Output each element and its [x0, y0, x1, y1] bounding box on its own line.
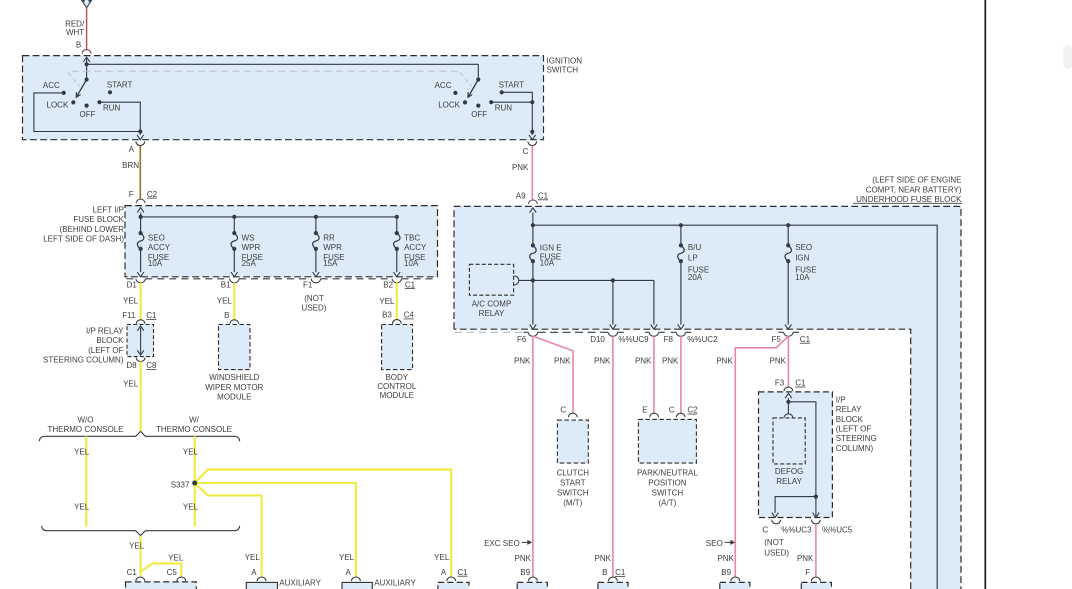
- node pole2 junction: [530, 100, 534, 104]
- connector bump B: [82, 49, 91, 53]
- bottom box seo: [720, 582, 750, 589]
- svg-text:C1: C1: [800, 335, 811, 344]
- svg-text:RR: RR: [323, 234, 335, 243]
- auxiliary box 1: [246, 582, 277, 589]
- svg-text:BLOCK: BLOCK: [836, 415, 864, 424]
- svg-text:EXC SEO: EXC SEO: [484, 539, 520, 548]
- svg-text:ACC: ACC: [43, 81, 60, 90]
- svg-text:BRN: BRN: [122, 161, 139, 170]
- exit arrow C: [531, 132, 533, 135]
- svg-text:B: B: [76, 41, 81, 50]
- svg-text:PNK: PNK: [635, 356, 652, 365]
- svg-text:ACC: ACC: [435, 81, 452, 90]
- svg-text:C: C: [560, 406, 566, 415]
- connector bump b c1: [609, 577, 618, 581]
- svg-text:LOCK: LOCK: [47, 101, 69, 110]
- svg-text:DEFOG: DEFOG: [775, 467, 803, 476]
- wire PNK F8: [680, 336, 682, 414]
- svg-text:YEL: YEL: [379, 297, 395, 306]
- fuse SEO ACCY FUSE 10A: [140, 217, 142, 233]
- ip relay block left circuit: [140, 328, 142, 354]
- svg-text:F11: F11: [122, 311, 136, 320]
- fuse SEO IGN FUSE 10A: [787, 225, 789, 245]
- exit arrow A: [139, 132, 141, 135]
- svg-text:STEERING: STEERING: [836, 434, 877, 443]
- svg-text:COLUMN): COLUMN): [836, 444, 874, 453]
- svg-text:B: B: [602, 568, 607, 577]
- svg-text:SWITCH: SWITCH: [547, 65, 579, 74]
- wire YEL merged: [139, 536, 141, 578]
- node left bus start: [139, 215, 143, 219]
- option split bracket: [39, 431, 239, 441]
- svg-text:F6: F6: [517, 335, 527, 344]
- wire relay bypass: [788, 402, 816, 517]
- svg-text:RELAY: RELAY: [776, 477, 802, 486]
- svg-text:USED): USED): [302, 304, 327, 313]
- svg-text:IGN E: IGN E: [540, 243, 562, 252]
- svg-text:THERMO CONSOLE: THERMO CONSOLE: [156, 425, 232, 434]
- connector bump C5 bottom: [177, 577, 186, 581]
- svg-text:B1: B1: [221, 280, 231, 289]
- svg-text:(NOT: (NOT: [304, 294, 324, 303]
- wire F8 down: [680, 261, 682, 324]
- wire YEL D8: [140, 361, 142, 431]
- fuse WS WPR FUSE 25A output arrow: [233, 249, 235, 272]
- svg-text:MODULE: MODULE: [217, 393, 251, 402]
- connector bump C1 bottom: [136, 577, 145, 581]
- svg-text:A: A: [441, 568, 447, 577]
- svg-text:C1: C1: [405, 280, 416, 289]
- svg-text:B9: B9: [520, 568, 530, 577]
- wire YEL w/o branch: [85, 436, 87, 526]
- svg-text:LP: LP: [688, 254, 698, 263]
- svg-text:C5: C5: [167, 568, 178, 577]
- svg-text:TBC: TBC: [404, 234, 420, 243]
- wire F5 down: [787, 261, 789, 324]
- svg-text:START: START: [499, 80, 525, 89]
- connector bump pnp C: [676, 413, 685, 417]
- svg-text:(M/T): (M/T): [563, 499, 582, 508]
- svg-text:YEL: YEL: [74, 447, 90, 456]
- svg-text:YEL: YEL: [217, 297, 233, 306]
- svg-text:C1: C1: [127, 568, 138, 577]
- left fuse block: [125, 206, 438, 277]
- svg-text:RUN: RUN: [103, 103, 121, 112]
- wire PNK F5 branch: [735, 336, 788, 577]
- svg-text:D10: D10: [590, 335, 605, 344]
- svg-text:C8: C8: [146, 361, 157, 370]
- svg-text:WIPER MOTOR: WIPER MOTOR: [205, 383, 263, 392]
- connector bump C: [528, 141, 537, 145]
- svg-text:(LEFT SIDE OF ENGINE: (LEFT SIDE OF ENGINE: [872, 176, 961, 185]
- off-page connector triangle: [79, 0, 94, 8]
- fuse RR WPR FUSE 15A output arrow: [315, 249, 317, 272]
- entry arrow B: [86, 59, 88, 65]
- wire BRN: [139, 146, 141, 199]
- svg-text:YEL: YEL: [183, 447, 199, 456]
- option merge bracket: [42, 526, 240, 536]
- entry arrow A9: [532, 213, 534, 226]
- svg-text:POSITION: POSITION: [648, 479, 686, 488]
- svg-text:SEO: SEO: [706, 539, 723, 548]
- svg-text:PNK: PNK: [594, 356, 611, 365]
- node pole1 out: [138, 129, 142, 133]
- node underhood bus A9: [531, 223, 535, 227]
- svg-text:20A: 20A: [688, 273, 703, 282]
- wire YEL S337 branch1: [195, 469, 452, 577]
- svg-text:IGN: IGN: [795, 254, 809, 263]
- svg-text:YEL: YEL: [183, 502, 199, 511]
- svg-text:RELAY: RELAY: [836, 405, 862, 414]
- svg-text:A: A: [251, 568, 257, 577]
- svg-text:CONTROL: CONTROL: [377, 382, 417, 391]
- svg-text:YEL: YEL: [339, 553, 355, 562]
- svg-text:A: A: [346, 568, 352, 577]
- fuse IGN E FUSE 10A: [532, 225, 534, 245]
- svg-text:YEL: YEL: [129, 542, 145, 551]
- page right border line: [984, 0, 986, 589]
- svg-text:(A/T): (A/T): [659, 499, 677, 508]
- ignition switch block: [23, 56, 544, 140]
- svg-text:LEFT SIDE OF DASH): LEFT SIDE OF DASH): [43, 234, 124, 243]
- wire YEL S337 branch2: [195, 483, 356, 577]
- svg-text:BLOCK: BLOCK: [96, 336, 124, 345]
- connector bump aux1: [257, 577, 266, 581]
- svg-text:SWITCH: SWITCH: [652, 489, 684, 498]
- svg-text:FUSE BLOCK: FUSE BLOCK: [73, 215, 124, 224]
- svg-text:25A: 25A: [242, 259, 257, 268]
- connector bump uc3: [772, 520, 781, 524]
- wire YEL B1: [233, 283, 235, 320]
- wire YEL S337 branch3: [195, 483, 262, 577]
- connector bump aux3: [447, 577, 456, 581]
- connector bump uc5: [812, 520, 821, 524]
- svg-text:W/: W/: [189, 416, 200, 425]
- fuse TBC ACCY FUSE 10A output arrow: [396, 249, 398, 272]
- svg-text:YEL: YEL: [74, 502, 90, 511]
- ignition switch pole 1: [85, 77, 89, 81]
- svg-text:B3: B3: [382, 311, 392, 320]
- bottom box d10: [598, 582, 628, 589]
- svg-text:YEL: YEL: [123, 379, 139, 388]
- svg-text:UNDERHOOD FUSE BLOCK: UNDERHOOD FUSE BLOCK: [856, 195, 962, 204]
- wire UC9 down: [653, 280, 655, 324]
- node bus B2: [395, 215, 399, 219]
- svg-text:RUN: RUN: [495, 103, 513, 112]
- wire RED/WHT: [86, 8, 88, 50]
- node ign bus: [85, 62, 89, 66]
- svg-text:AUXILIARY: AUXILIARY: [374, 578, 416, 587]
- svg-text:YEL: YEL: [434, 553, 450, 562]
- svg-text:BODY: BODY: [385, 373, 408, 382]
- svg-text:PNK: PNK: [716, 356, 733, 365]
- wire YEL D1: [140, 283, 142, 320]
- svg-text:F: F: [805, 568, 810, 577]
- wire ign bus: [87, 63, 479, 65]
- node bus seo: [786, 223, 790, 227]
- connector strip C1 left fuse block: [127, 278, 136, 280]
- wire PNK F6 branch clutch: [533, 336, 573, 414]
- svg-text:WINDSHIELD: WINDSHIELD: [209, 373, 259, 382]
- svg-text:(BEHIND LOWER: (BEHIND LOWER: [60, 225, 125, 234]
- svg-text:C1: C1: [615, 568, 626, 577]
- wire PNK D10: [612, 336, 614, 577]
- svg-text:YEL: YEL: [168, 554, 184, 563]
- svg-text:ACCY: ACCY: [404, 243, 427, 252]
- wire defog feed: [787, 402, 789, 414]
- svg-text:E: E: [642, 406, 647, 415]
- svg-text:%%UC5: %%UC5: [822, 526, 853, 535]
- windshield wiper motor module: [219, 325, 251, 370]
- wire YEL w/ branch: [194, 436, 196, 526]
- svg-text:WPR: WPR: [323, 243, 342, 252]
- connector bump pnp E: [650, 413, 659, 417]
- svg-text:W/O: W/O: [78, 416, 94, 425]
- svg-text:START: START: [560, 479, 586, 488]
- node F3: [786, 400, 790, 404]
- svg-text:C2: C2: [687, 406, 698, 415]
- connector bump aux2: [352, 577, 361, 581]
- wire relay to fuses: [519, 279, 654, 281]
- connector bump b9 2: [731, 577, 740, 581]
- wire YEL B2: [396, 283, 398, 320]
- ip relay block right: [759, 392, 833, 518]
- connector bump D8: [136, 358, 145, 362]
- svg-text:10A: 10A: [404, 259, 419, 268]
- svg-text:AUXILIARY: AUXILIARY: [279, 578, 321, 587]
- svg-text:PNK: PNK: [595, 554, 612, 563]
- svg-text:USED): USED): [764, 549, 789, 558]
- svg-text:LOCK: LOCK: [438, 101, 460, 110]
- svg-text:COMPT, NEAR BATTERY): COMPT, NEAR BATTERY): [866, 185, 962, 194]
- wire YEL C5 branch: [141, 563, 182, 577]
- svg-text:WPR: WPR: [242, 243, 261, 252]
- connector bump B3: [392, 320, 401, 324]
- svg-text:10A: 10A: [795, 273, 810, 282]
- wire PNK F5: [787, 336, 789, 387]
- scrollbar thumb: [1064, 45, 1072, 69]
- connector bump defog top: [784, 414, 793, 418]
- svg-text:SWITCH: SWITCH: [557, 489, 589, 498]
- wire PNK F6: [532, 336, 534, 577]
- svg-text:A: A: [129, 145, 135, 154]
- connector bump B wwm: [230, 320, 239, 324]
- svg-text:PNK: PNK: [554, 356, 571, 365]
- svg-text:10A: 10A: [148, 259, 163, 268]
- wire left bus: [141, 216, 397, 218]
- node bus F1: [314, 215, 318, 219]
- svg-text:C4: C4: [404, 311, 415, 320]
- ganged link dashed: [72, 70, 459, 72]
- wire defog out: [775, 497, 816, 513]
- svg-text:I/P RELAY: I/P RELAY: [86, 327, 124, 336]
- wire PNK defog: [815, 524, 817, 578]
- clutch start switch box: [557, 420, 588, 463]
- node d10 junction: [611, 278, 615, 282]
- svg-text:(LEFT OF: (LEFT OF: [836, 425, 872, 434]
- ip relay block left: [127, 325, 154, 357]
- svg-text:WHT: WHT: [66, 28, 84, 37]
- connector bump A: [136, 141, 145, 145]
- svg-text:CLUTCH: CLUTCH: [557, 468, 590, 477]
- svg-text:F8: F8: [664, 335, 674, 344]
- connector bump F3: [784, 387, 793, 391]
- svg-text:PNK: PNK: [717, 554, 734, 563]
- node ign e junction: [531, 278, 535, 282]
- svg-text:F: F: [129, 190, 134, 199]
- svg-text:PARK/NEUTRAL: PARK/NEUTRAL: [637, 468, 698, 477]
- defog relay box: [773, 418, 805, 464]
- svg-text:PNK: PNK: [514, 356, 531, 365]
- wire pole1 ACC: [34, 93, 140, 132]
- entry arrow F: [140, 213, 142, 217]
- svg-text:(NOT: (NOT: [764, 538, 784, 547]
- svg-text:PNK: PNK: [515, 554, 532, 563]
- svg-text:PNK: PNK: [512, 163, 529, 172]
- connector bump A9: [529, 200, 538, 204]
- fuse B/U LP FUSE 20A: [680, 225, 682, 245]
- node pole2 out: [530, 130, 534, 134]
- svg-text:C1: C1: [146, 311, 157, 320]
- svg-text:START: START: [107, 80, 133, 89]
- svg-text:THERMO CONSOLE: THERMO CONSOLE: [47, 425, 123, 434]
- svg-text:STEERING COLUMN): STEERING COLUMN): [43, 355, 124, 364]
- svg-text:OFF: OFF: [80, 110, 96, 119]
- svg-text:SEO: SEO: [795, 243, 812, 252]
- svg-text:S337: S337: [171, 481, 190, 490]
- park/neutral position switch box: [638, 419, 696, 463]
- svg-text:C1: C1: [457, 568, 468, 577]
- fuse TBC ACCY FUSE 10A: [396, 217, 398, 233]
- svg-text:10A: 10A: [540, 259, 555, 268]
- a/c comp relay box: [469, 264, 513, 295]
- svg-text:%%UC9: %%UC9: [618, 335, 649, 344]
- body control module: [382, 325, 413, 370]
- svg-text:D8: D8: [126, 361, 137, 370]
- svg-text:I/P: I/P: [836, 395, 846, 404]
- svg-text:YEL: YEL: [123, 297, 139, 306]
- svg-text:C: C: [669, 406, 675, 415]
- wire pole2 START: [502, 92, 533, 102]
- svg-text:C: C: [762, 526, 768, 535]
- svg-text:SEO: SEO: [148, 234, 165, 243]
- svg-text:RELAY: RELAY: [479, 309, 505, 318]
- svg-text:(LEFT OF: (LEFT OF: [88, 346, 124, 355]
- svg-text:B9: B9: [721, 568, 731, 577]
- auxiliary box 3: [438, 582, 469, 589]
- connector bump b9 1: [529, 577, 538, 581]
- svg-text:WS: WS: [242, 234, 255, 243]
- bottom box exc seo: [517, 582, 547, 589]
- svg-text:C2: C2: [147, 190, 158, 199]
- connector bump F11: [136, 320, 145, 324]
- ignition switch pole 2: [476, 77, 480, 81]
- wire D10 down: [612, 280, 614, 324]
- svg-text:LEFT I/P: LEFT I/P: [93, 206, 124, 215]
- svg-text:B: B: [224, 311, 229, 320]
- svg-text:ACCY: ACCY: [148, 243, 171, 252]
- svg-text:15A: 15A: [323, 259, 338, 268]
- svg-text:F1: F1: [303, 280, 313, 289]
- fuse RR WPR FUSE 15A: [315, 217, 317, 233]
- underhood fuse block border: [454, 206, 961, 589]
- console accessories box: [126, 582, 197, 589]
- entry arrow F3: [787, 398, 789, 402]
- connector strip C1 underhood: [455, 331, 523, 333]
- svg-text:F3: F3: [775, 379, 785, 388]
- svg-text:%%UC3: %%UC3: [781, 526, 812, 535]
- svg-text:%%UC2: %%UC2: [687, 335, 718, 344]
- svg-text:A9: A9: [516, 192, 526, 201]
- svg-text:YEL: YEL: [245, 553, 261, 562]
- wire PNK ignition: [531, 146, 533, 200]
- svg-text:B2: B2: [383, 280, 393, 289]
- svg-text:B/U: B/U: [688, 243, 702, 252]
- svg-text:PNK: PNK: [770, 356, 787, 365]
- svg-text:C1: C1: [795, 379, 806, 388]
- svg-text:PNK: PNK: [662, 356, 679, 365]
- svg-text:A/C COMP: A/C COMP: [472, 299, 512, 308]
- svg-text:C: C: [523, 147, 529, 156]
- wire pole2 RUN: [491, 101, 532, 103]
- connector bump F C2: [136, 199, 145, 203]
- svg-text:PNK: PNK: [797, 554, 814, 563]
- wire underhood bus: [533, 225, 937, 589]
- node bus B1: [232, 215, 236, 219]
- svg-text:MODULE: MODULE: [380, 391, 414, 400]
- wire PNK UC9: [653, 336, 655, 414]
- svg-text:OFF: OFF: [471, 110, 487, 119]
- auxiliary box 2: [342, 582, 372, 589]
- connector bump f bottom: [812, 577, 821, 581]
- fuse SEO ACCY FUSE 10A output arrow: [140, 249, 142, 272]
- fuse WS WPR FUSE 25A: [233, 217, 235, 233]
- svg-text:C1: C1: [538, 192, 549, 201]
- node bus b/u: [679, 223, 683, 227]
- bottom box defog: [801, 582, 831, 589]
- a/c comp relay contact: [514, 276, 519, 285]
- connector bump clutch: [568, 413, 577, 417]
- svg-text:F5: F5: [771, 335, 781, 344]
- wire pole2 down: [531, 102, 533, 132]
- wire pole1 RUN: [100, 102, 141, 131]
- node defog out: [814, 495, 818, 499]
- splice S337: [192, 481, 197, 486]
- svg-text:D1: D1: [127, 280, 138, 289]
- wire IGN E down: [532, 261, 534, 324]
- underhood fuse block fill: [454, 206, 961, 589]
